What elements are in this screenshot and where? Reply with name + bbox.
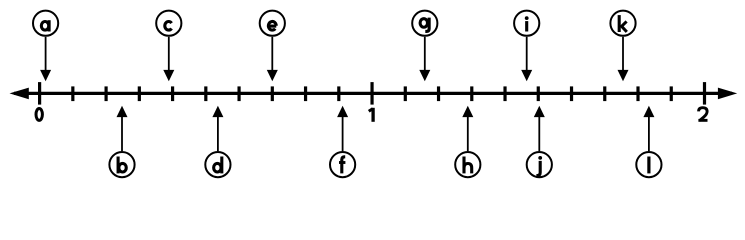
node right arrowhead	[718, 88, 737, 100]
wire number-line axis	[14, 92, 732, 95]
node minor tick 4	[171, 86, 174, 101]
node axis label 2	[698, 108, 707, 121]
node minor tick 9	[337, 86, 340, 101]
node minor tick 5	[204, 86, 207, 101]
node point h	[455, 106, 480, 178]
node minor tick 13	[470, 86, 473, 101]
node point d	[205, 106, 230, 178]
node minor tick 16	[570, 86, 573, 101]
node left arrowhead	[10, 88, 29, 100]
node point k	[610, 11, 635, 82]
node axis label 0	[36, 108, 42, 120]
node point i	[514, 11, 539, 82]
node major tick 1	[370, 82, 373, 105]
node minor tick 17	[603, 86, 606, 101]
node point c	[156, 11, 181, 82]
node point e	[260, 11, 285, 82]
node major tick 0	[38, 82, 41, 105]
node minor tick 11	[404, 86, 407, 101]
node point j	[527, 106, 552, 178]
node major tick 2	[703, 82, 706, 105]
node point b	[109, 106, 134, 178]
node minor tick 6	[237, 86, 240, 101]
node minor tick 3	[138, 86, 141, 101]
node minor tick 15	[537, 86, 540, 101]
node axis label 1	[369, 108, 375, 122]
node point a	[33, 11, 58, 82]
node minor tick 2	[104, 86, 107, 101]
node point f	[330, 106, 355, 178]
node point g	[412, 11, 437, 82]
node minor tick 18	[636, 86, 639, 101]
node minor tick 14	[503, 86, 506, 101]
node minor tick 19	[670, 86, 673, 101]
node minor tick 12	[437, 86, 440, 101]
node minor tick 1	[71, 86, 74, 101]
node point l	[636, 106, 661, 178]
node minor tick 8	[304, 86, 307, 101]
node minor tick 7	[271, 86, 274, 101]
